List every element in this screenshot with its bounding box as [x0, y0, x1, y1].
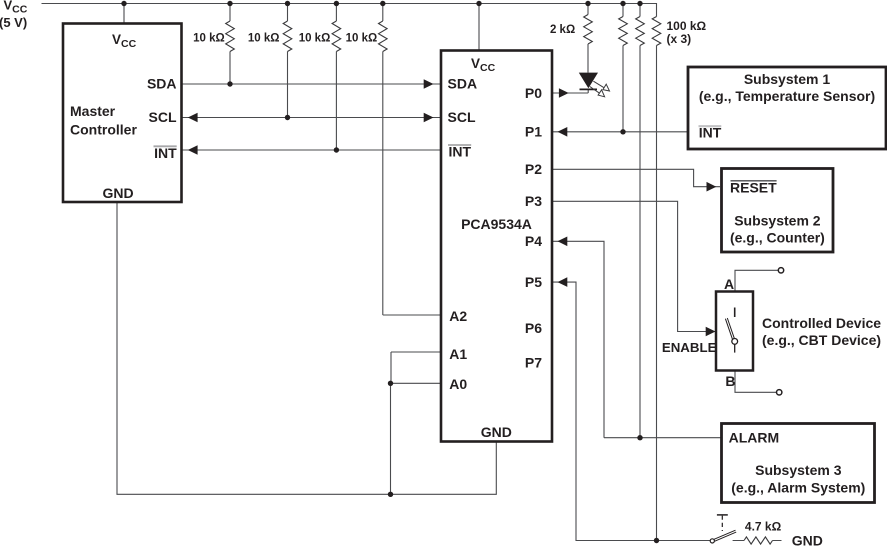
- svg-text:A: A: [724, 276, 734, 292]
- svg-text:GND: GND: [792, 533, 823, 546]
- svg-text:Master: Master: [70, 103, 116, 119]
- svg-text:(e.g., Counter): (e.g., Counter): [730, 229, 825, 245]
- svg-text:(x 3): (x 3): [667, 32, 692, 46]
- svg-text:ENABLE: ENABLE: [662, 340, 717, 355]
- svg-text:P5: P5: [525, 274, 542, 290]
- svg-text:SCL: SCL: [149, 109, 177, 125]
- svg-text:SDA: SDA: [147, 76, 177, 92]
- svg-text:(5 V): (5 V): [0, 15, 27, 30]
- svg-text:SDA: SDA: [448, 76, 478, 92]
- svg-text:10 kΩ: 10 kΩ: [346, 33, 378, 45]
- svg-text:10 kΩ: 10 kΩ: [299, 33, 331, 45]
- svg-text:Subsystem 3: Subsystem 3: [755, 462, 842, 478]
- svg-text:Controller: Controller: [70, 121, 137, 137]
- svg-text:Subsystem 1: Subsystem 1: [744, 71, 831, 87]
- svg-text:GND: GND: [481, 424, 512, 440]
- svg-text:B: B: [725, 373, 735, 389]
- svg-text:P6: P6: [525, 320, 542, 336]
- svg-text:Controlled Device: Controlled Device: [762, 315, 881, 331]
- svg-text:P1: P1: [525, 124, 542, 140]
- svg-text:P2: P2: [525, 161, 542, 177]
- svg-text:A2: A2: [449, 308, 467, 324]
- svg-text:10 kΩ: 10 kΩ: [248, 33, 280, 45]
- svg-text:PCA9534A: PCA9534A: [461, 216, 532, 232]
- svg-text:GND: GND: [102, 185, 133, 201]
- svg-text:(e.g., Alarm System): (e.g., Alarm System): [731, 480, 865, 496]
- svg-text:10 kΩ: 10 kΩ: [193, 33, 225, 45]
- svg-text:P0: P0: [525, 85, 542, 101]
- svg-text:2 kΩ: 2 kΩ: [550, 24, 575, 36]
- svg-text:RESET: RESET: [730, 179, 777, 195]
- svg-text:P7: P7: [525, 354, 542, 370]
- svg-text:(e.g., Temperature Sensor): (e.g., Temperature Sensor): [699, 88, 875, 104]
- svg-text:A1: A1: [449, 346, 467, 362]
- svg-text:P4: P4: [525, 233, 542, 249]
- svg-text:4.7 kΩ: 4.7 kΩ: [745, 520, 782, 534]
- svg-text:VCC: VCC: [4, 0, 28, 16]
- svg-text:Subsystem 2: Subsystem 2: [734, 212, 821, 228]
- svg-text:SCL: SCL: [448, 109, 476, 125]
- svg-text:P3: P3: [525, 193, 542, 209]
- svg-text:ALARM: ALARM: [729, 429, 780, 445]
- svg-text:100 kΩ: 100 kΩ: [667, 19, 707, 33]
- svg-text:(e.g., CBT Device): (e.g., CBT Device): [762, 332, 881, 348]
- svg-text:A0: A0: [449, 376, 467, 392]
